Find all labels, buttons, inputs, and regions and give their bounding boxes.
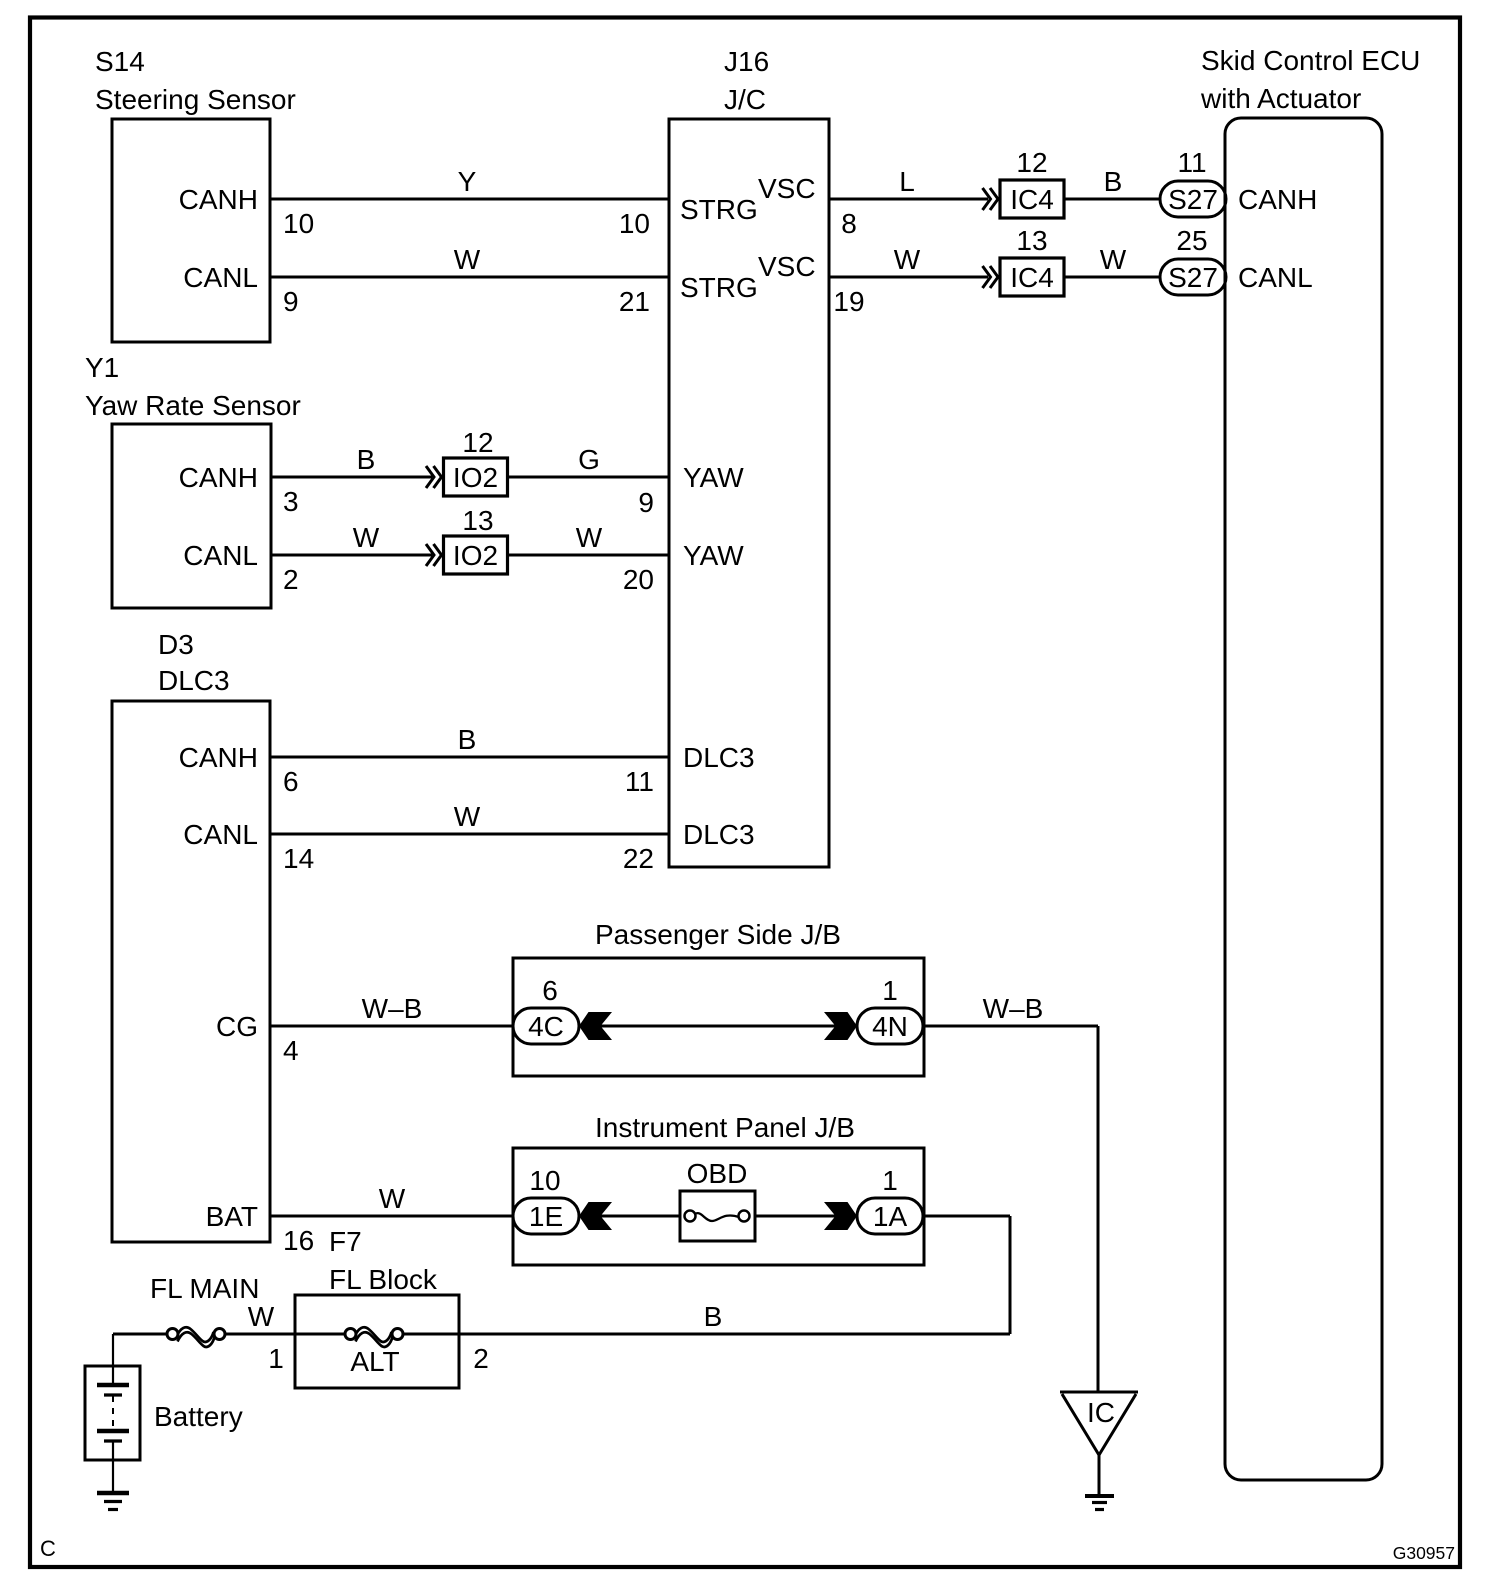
wire 1A out right bbox=[923, 1215, 1010, 1218]
svg-text:L: L bbox=[899, 166, 915, 197]
fuse block F7 FL Block box bbox=[295, 1295, 459, 1388]
svg-text:4: 4 bbox=[283, 1035, 299, 1066]
svg-text:ALT: ALT bbox=[350, 1346, 399, 1377]
sensor Y1 Yaw Rate Sensor box bbox=[112, 424, 271, 608]
connector 4N oval bbox=[857, 1008, 923, 1044]
svg-text:BAT: BAT bbox=[206, 1201, 258, 1232]
svg-text:D3: D3 bbox=[158, 629, 194, 660]
connector D3 DLC3 box bbox=[112, 701, 270, 1242]
svg-text:1: 1 bbox=[268, 1343, 284, 1374]
svg-text:6: 6 bbox=[542, 975, 558, 1006]
svg-text:13: 13 bbox=[462, 505, 493, 536]
arrow at 4N bbox=[824, 1012, 857, 1040]
arrow at 1E bbox=[579, 1202, 612, 1230]
fuse ALT element bbox=[355, 1327, 392, 1342]
svg-text:J/C: J/C bbox=[724, 84, 766, 115]
wire W: IC4 to S27 pin 25 bbox=[1064, 276, 1160, 279]
svg-text:B: B bbox=[357, 444, 376, 475]
connector IO2 (pin 12) box bbox=[444, 458, 508, 496]
svg-text:STRG: STRG bbox=[680, 194, 758, 225]
Skid Control ECU box bbox=[1225, 118, 1382, 1480]
svg-text:13: 13 bbox=[1016, 225, 1047, 256]
wire IC to ground bbox=[1098, 1455, 1101, 1496]
svg-text:W: W bbox=[1100, 244, 1127, 275]
svg-text:21: 21 bbox=[619, 286, 650, 317]
battery internal lead top bbox=[112, 1366, 114, 1385]
svg-text:VSC: VSC bbox=[758, 251, 816, 282]
battery plate long bottom bbox=[97, 1429, 129, 1434]
connector IO2 (pin 13) box bbox=[444, 536, 508, 574]
ground triangle IC bbox=[1060, 1391, 1138, 1394]
svg-text:4N: 4N bbox=[872, 1011, 908, 1042]
svg-text:Y1: Y1 bbox=[85, 352, 119, 383]
wire FL MAIN to FL Block bbox=[225, 1333, 345, 1336]
svg-text:W–B: W–B bbox=[983, 993, 1044, 1024]
wire W: Y1 pin 2 to IO2 bbox=[271, 554, 432, 557]
wire Y: S14 pin 10 to J16 pin 10 bbox=[270, 198, 668, 201]
svg-text:1: 1 bbox=[882, 975, 898, 1006]
connector S14 Steering Sensor box bbox=[112, 119, 270, 342]
svg-text:8: 8 bbox=[841, 208, 857, 239]
svg-text:9: 9 bbox=[638, 487, 654, 518]
svg-text:YAW: YAW bbox=[683, 462, 744, 493]
svg-text:CANH: CANH bbox=[179, 462, 258, 493]
Passenger Side J/B box bbox=[513, 958, 924, 1076]
junction connector J16 J/C box bbox=[669, 119, 829, 867]
connector S27 (pin 11) oval bbox=[1160, 181, 1226, 217]
connector 4C oval bbox=[513, 1008, 579, 1044]
svg-text:G: G bbox=[578, 444, 600, 475]
wire B: Y1 pin 3 to IO2 bbox=[271, 476, 432, 479]
svg-text:6: 6 bbox=[283, 766, 299, 797]
svg-text:20: 20 bbox=[623, 564, 654, 595]
svg-text:DLC3: DLC3 bbox=[683, 819, 755, 850]
battery dashed link bbox=[112, 1396, 114, 1429]
svg-text:IC4: IC4 bbox=[1010, 262, 1054, 293]
svg-text:CANL: CANL bbox=[183, 819, 258, 850]
ground (IC) bbox=[1085, 1494, 1114, 1498]
arrow at 4C bbox=[579, 1012, 612, 1040]
svg-text:DLC3: DLC3 bbox=[158, 665, 230, 696]
wire W: IO2 to J16 pin 20 bbox=[508, 554, 669, 557]
wire W: J16 pin 19 to IC4 bbox=[829, 276, 988, 279]
svg-text:W: W bbox=[454, 801, 481, 832]
svg-text:F7: F7 bbox=[329, 1226, 362, 1257]
svg-text:B: B bbox=[458, 724, 477, 755]
svg-text:W–B: W–B bbox=[362, 993, 423, 1024]
battery plate short bottom bbox=[104, 1439, 122, 1442]
battery plate long top bbox=[97, 1383, 129, 1388]
connector IC4 (pin 12) box bbox=[1000, 180, 1064, 218]
wire battery to ground bbox=[112, 1441, 114, 1493]
connector 1E oval bbox=[513, 1198, 579, 1234]
svg-text:CANH: CANH bbox=[179, 742, 258, 773]
svg-text:4C: 4C bbox=[528, 1011, 564, 1042]
wire battery to FL MAIN bbox=[113, 1333, 168, 1336]
wire inside Passenger Side J/B bbox=[579, 1025, 857, 1028]
svg-text:Battery: Battery bbox=[154, 1401, 243, 1432]
Instrument Panel J/B box bbox=[513, 1148, 924, 1265]
svg-text:S27: S27 bbox=[1168, 184, 1218, 215]
ground (battery) bbox=[97, 1491, 129, 1496]
svg-text:YAW: YAW bbox=[683, 540, 744, 571]
connector arrow into IC4 (row 1) bbox=[983, 188, 991, 210]
svg-text:19: 19 bbox=[833, 286, 864, 317]
svg-text:CG: CG bbox=[216, 1011, 258, 1042]
svg-text:16: 16 bbox=[283, 1225, 314, 1256]
svg-text:W: W bbox=[353, 522, 380, 553]
connector S27 (pin 25) oval bbox=[1160, 259, 1226, 295]
svg-text:22: 22 bbox=[623, 843, 654, 874]
svg-text:STRG: STRG bbox=[680, 272, 758, 303]
svg-text:10: 10 bbox=[283, 208, 314, 239]
svg-text:OBD: OBD bbox=[687, 1158, 748, 1189]
wire OBD fuse to 1A bbox=[755, 1215, 857, 1218]
svg-text:with Actuator: with Actuator bbox=[1200, 83, 1361, 114]
wire W: S14 pin 9 to J16 pin 21 bbox=[270, 276, 668, 279]
svg-text:Y: Y bbox=[458, 166, 477, 197]
svg-text:CANL: CANL bbox=[1238, 262, 1313, 293]
svg-text:3: 3 bbox=[283, 486, 299, 517]
svg-text:11: 11 bbox=[1177, 147, 1206, 178]
svg-text:IO2: IO2 bbox=[453, 540, 498, 571]
svg-text:1: 1 bbox=[882, 1165, 898, 1196]
svg-text:12: 12 bbox=[462, 427, 493, 458]
wire G: IO2 to J16 pin 9 bbox=[508, 476, 669, 479]
svg-text:Instrument Panel J/B: Instrument Panel J/B bbox=[595, 1112, 855, 1143]
connector arrow into IC4 (row 2) bbox=[983, 266, 991, 288]
svg-text:VSC: VSC bbox=[758, 173, 816, 204]
battery plate short top bbox=[104, 1393, 122, 1396]
wire W: D3 pin 14 to J16 pin 22 bbox=[270, 833, 668, 836]
svg-text:Steering Sensor: Steering Sensor bbox=[95, 84, 296, 115]
wire B: IC4 to S27 pin 11 bbox=[1064, 198, 1160, 201]
svg-text:B: B bbox=[1104, 166, 1123, 197]
svg-text:W: W bbox=[576, 522, 603, 553]
fuse OBD element bbox=[695, 1213, 739, 1221]
svg-text:2: 2 bbox=[283, 564, 299, 595]
svg-text:10: 10 bbox=[529, 1165, 560, 1196]
svg-text:W: W bbox=[454, 244, 481, 275]
svg-text:CANH: CANH bbox=[179, 184, 258, 215]
svg-text:11: 11 bbox=[625, 766, 654, 797]
battery box bbox=[85, 1366, 140, 1460]
svg-text:J16: J16 bbox=[724, 46, 769, 77]
svg-text:IC: IC bbox=[1087, 1397, 1115, 1428]
svg-text:1A: 1A bbox=[873, 1201, 908, 1232]
svg-text:Passenger Side J/B: Passenger Side J/B bbox=[595, 919, 841, 950]
svg-text:9: 9 bbox=[283, 286, 299, 317]
connector arrow into IO2 (row 1) bbox=[426, 466, 434, 488]
connector IC4 (pin 13) box bbox=[1000, 258, 1064, 296]
svg-text:CANH: CANH bbox=[1238, 184, 1317, 215]
svg-text:S27: S27 bbox=[1168, 262, 1218, 293]
wire B: D3 pin 6 to J16 pin 11 bbox=[270, 756, 668, 759]
wire vertical 1A down to B wire bbox=[1009, 1216, 1012, 1334]
connector 1A oval bbox=[857, 1198, 923, 1234]
svg-text:C: C bbox=[40, 1536, 56, 1561]
svg-text:IO2: IO2 bbox=[453, 462, 498, 493]
wire L: J16 pin 8 to IC4 bbox=[829, 198, 988, 201]
svg-text:S14: S14 bbox=[95, 46, 145, 77]
svg-text:Skid Control ECU: Skid Control ECU bbox=[1201, 45, 1420, 76]
wire battery riser bbox=[112, 1334, 114, 1366]
wire 1E to OBD fuse bbox=[579, 1215, 680, 1218]
svg-text:FL MAIN: FL MAIN bbox=[150, 1273, 259, 1304]
svg-text:IC4: IC4 bbox=[1010, 184, 1054, 215]
svg-text:W: W bbox=[379, 1183, 406, 1214]
svg-text:FL Block: FL Block bbox=[329, 1264, 438, 1295]
wire W-B: 4N to IC ground bbox=[923, 1025, 1098, 1028]
arrow at 1A bbox=[824, 1202, 857, 1230]
svg-text:G30957: G30957 bbox=[1393, 1543, 1455, 1563]
svg-text:DLC3: DLC3 bbox=[683, 742, 755, 773]
fuse OBD box bbox=[680, 1191, 755, 1241]
wire vertical down to IC bbox=[1097, 1026, 1100, 1392]
svg-text:12: 12 bbox=[1016, 147, 1047, 178]
fusible link FL MAIN element bbox=[177, 1327, 214, 1342]
svg-text:14: 14 bbox=[283, 843, 314, 874]
svg-text:CANL: CANL bbox=[183, 540, 258, 571]
wire W-B: D3 pin 4 to Passenger Side J/B 4C bbox=[270, 1025, 513, 1028]
svg-text:W: W bbox=[248, 1301, 275, 1332]
svg-text:10: 10 bbox=[619, 208, 650, 239]
wire B: ALT fuse to 1A vertical bbox=[404, 1333, 1010, 1336]
svg-text:2: 2 bbox=[473, 1343, 489, 1374]
svg-text:CANL: CANL bbox=[183, 262, 258, 293]
wire W: D3 pin 16 to Instrument Panel J/B 1E bbox=[270, 1215, 513, 1218]
svg-text:1E: 1E bbox=[529, 1201, 563, 1232]
svg-text:25: 25 bbox=[1176, 225, 1207, 256]
svg-text:B: B bbox=[704, 1301, 723, 1332]
connector arrow into IO2 (row 2) bbox=[426, 544, 434, 566]
svg-text:Yaw Rate Sensor: Yaw Rate Sensor bbox=[85, 390, 301, 421]
svg-text:W: W bbox=[894, 244, 921, 275]
